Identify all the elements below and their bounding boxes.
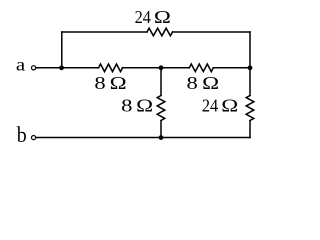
svg-text:Ω: Ω <box>154 7 171 27</box>
wire right vertical upper <box>249 32 251 96</box>
resistor R4 24ohm vertical zigzag <box>246 96 254 121</box>
svg-text:Ω: Ω <box>221 95 238 115</box>
resistor R1 8ohm zigzag <box>99 64 123 72</box>
svg-text:Ω: Ω <box>136 95 153 115</box>
svg-text:8: 8 <box>94 73 105 93</box>
wire middle vertical upper <box>160 68 162 96</box>
node junction dot right <box>248 65 253 70</box>
wire left vertical branch <box>61 32 63 68</box>
wire main rail between resistors <box>123 67 190 69</box>
node junction dot bottom <box>159 135 164 140</box>
svg-text:Ω: Ω <box>110 73 127 93</box>
wire right vertical lower <box>249 121 251 138</box>
svg-text:24: 24 <box>135 7 151 27</box>
wire top from left corner to resistor <box>62 31 147 33</box>
terminal a circle <box>31 66 35 70</box>
wire main rail a to first resistor <box>37 67 99 69</box>
svg-text:8: 8 <box>187 73 198 93</box>
resistor R_top 24ohm zigzag <box>147 28 173 36</box>
wire middle vertical lower <box>160 121 162 138</box>
svg-text:24: 24 <box>202 95 218 115</box>
node junction dot left <box>59 65 64 70</box>
svg-text:Ω: Ω <box>202 73 219 93</box>
svg-text:b: b <box>17 122 27 147</box>
wire bottom rail <box>37 137 250 139</box>
node junction dot middle <box>159 65 164 70</box>
resistor R2 8ohm zigzag <box>189 64 213 72</box>
terminal b circle <box>31 136 35 140</box>
svg-text:8: 8 <box>121 95 132 115</box>
wire main rail to right node <box>213 67 250 69</box>
svg-text:a: a <box>16 55 25 75</box>
resistor R3 8ohm vertical zigzag <box>157 96 165 121</box>
wire top from resistor to right corner <box>173 31 251 33</box>
